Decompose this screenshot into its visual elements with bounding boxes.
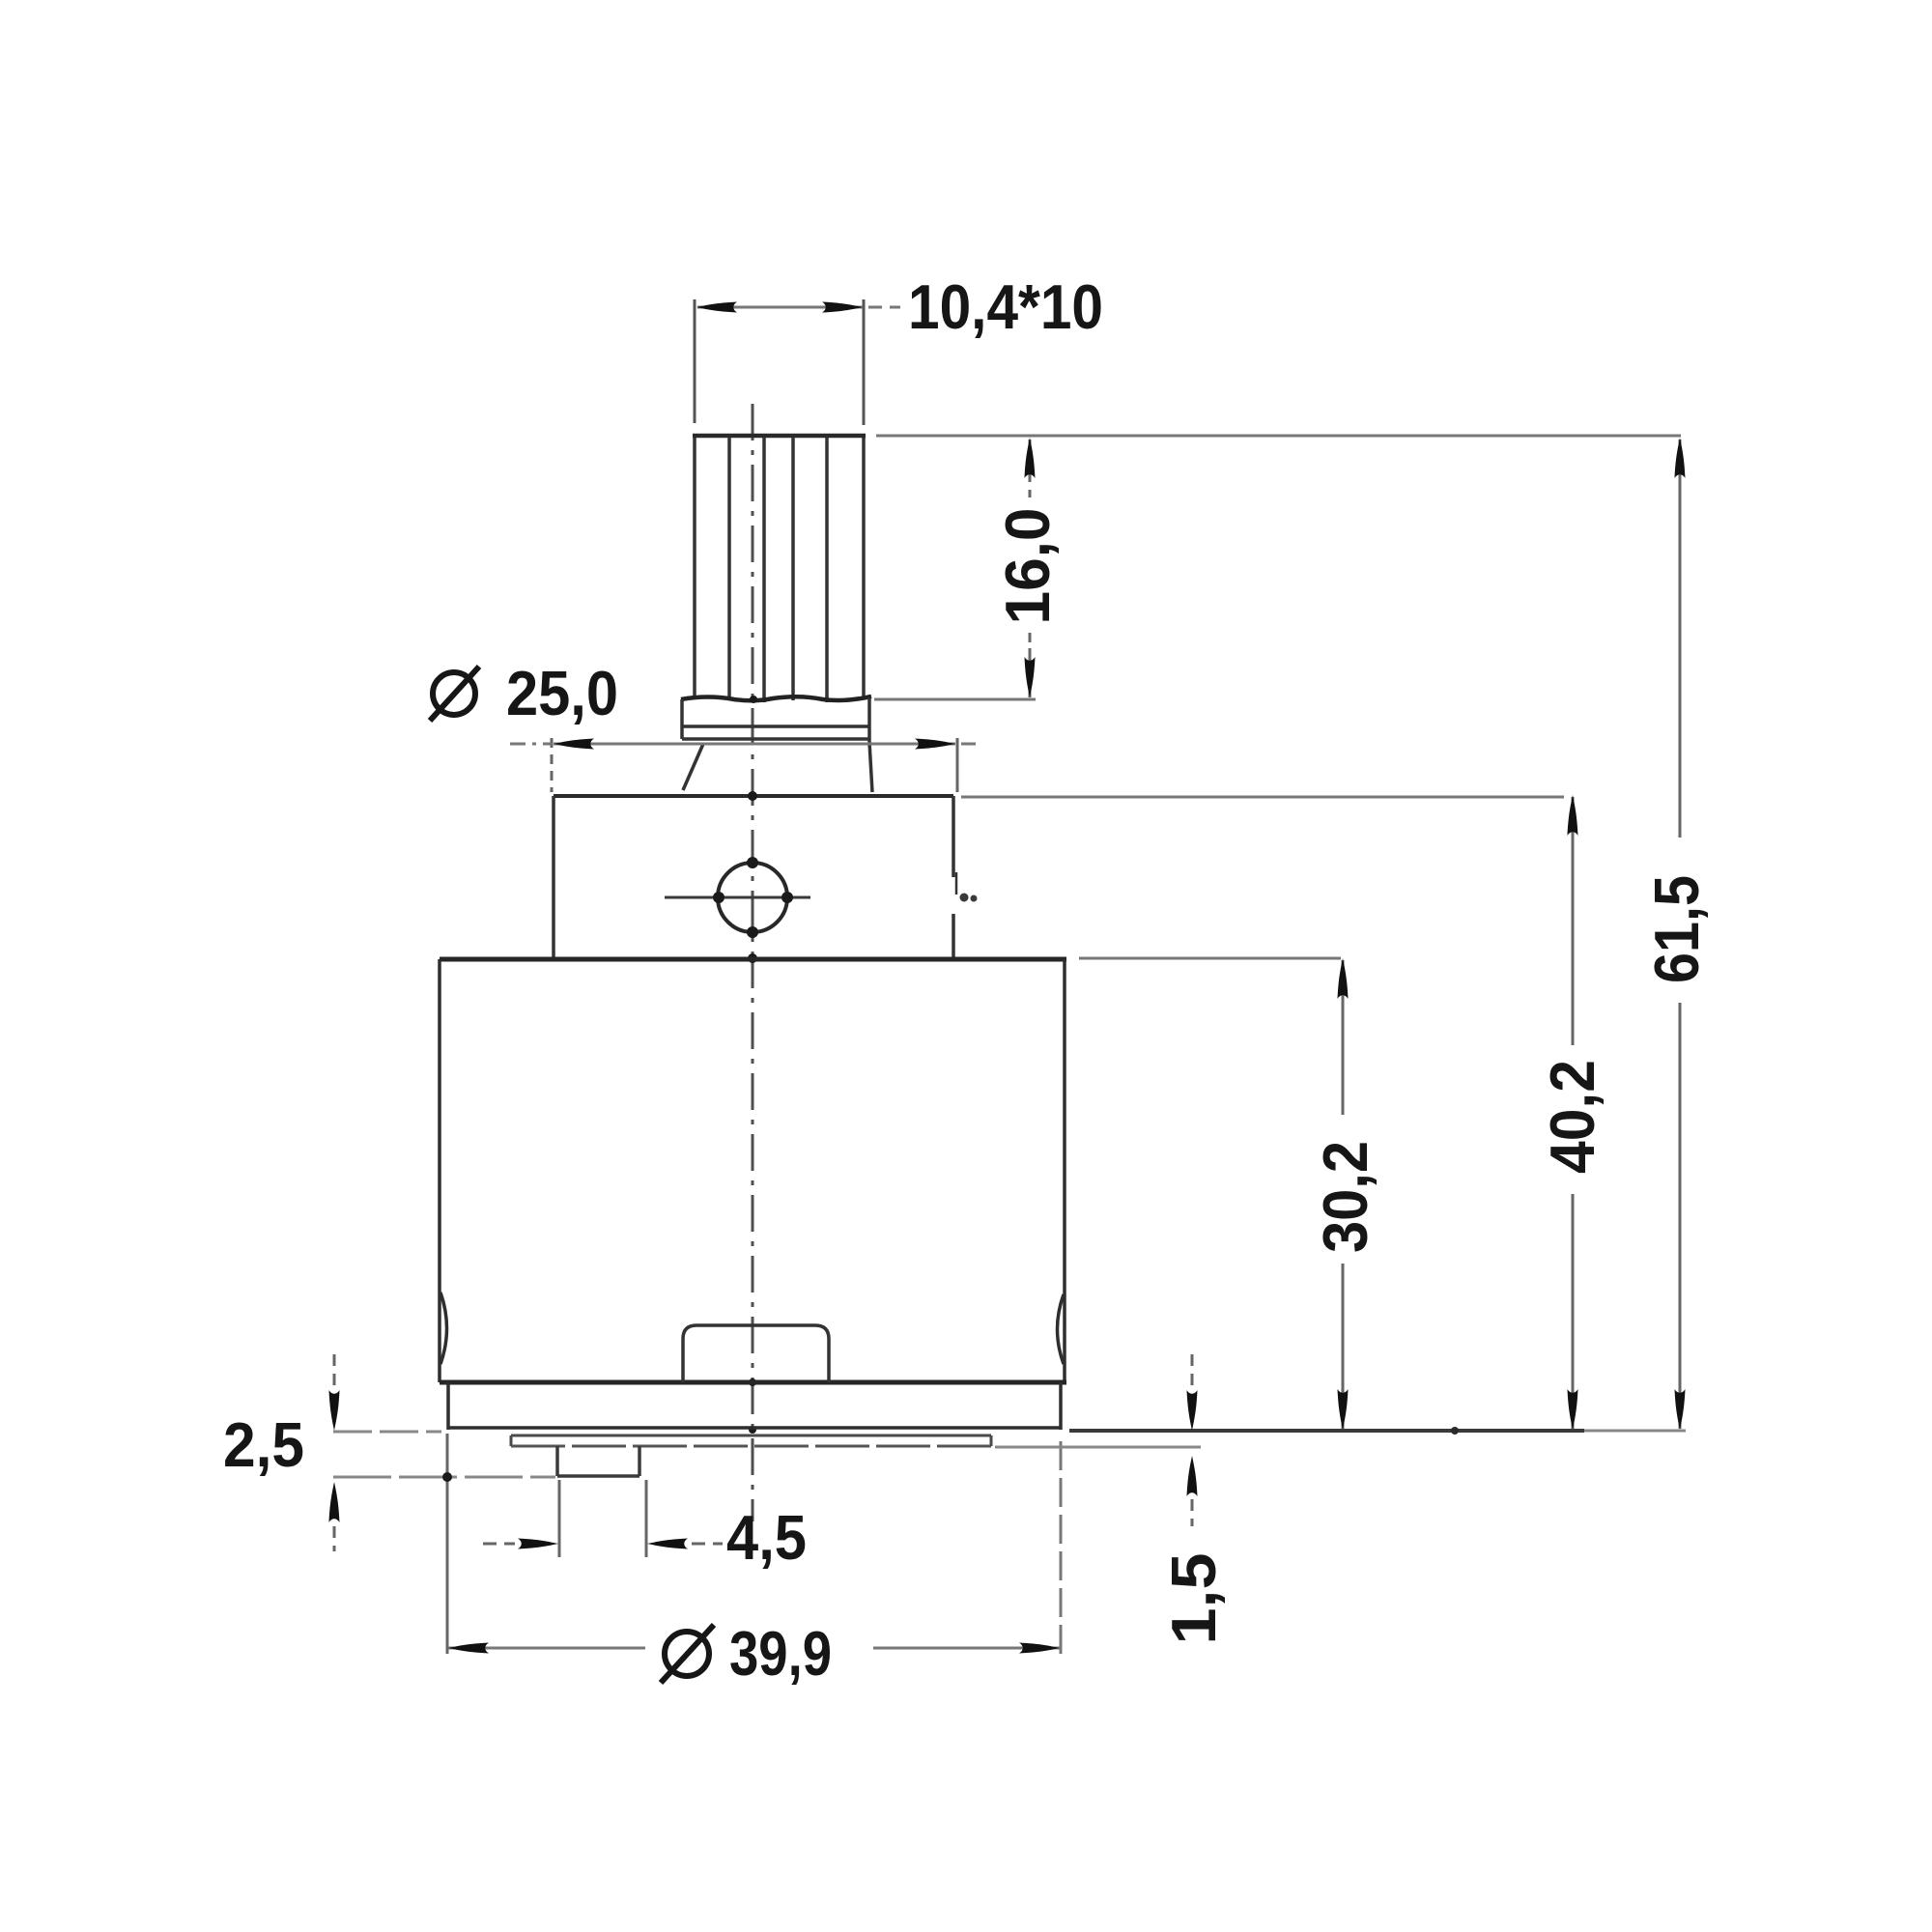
top reference line (shaft top) xyxy=(876,435,1681,438)
pivot hole circle xyxy=(718,863,787,932)
splined shaft stem xyxy=(693,436,866,702)
dim 2,5 line with arrows xyxy=(333,1354,336,1388)
diameter symbol for 39,9 xyxy=(661,1625,714,1683)
upper block xyxy=(554,796,956,957)
dim 16,0 top arrow xyxy=(1025,438,1036,478)
dim 10,4*10 left extension xyxy=(694,299,696,423)
dim 30,2 top arrow xyxy=(1338,958,1349,999)
dim 30,2 line xyxy=(1342,960,1345,1429)
svg-text:61,5: 61,5 xyxy=(1641,875,1712,983)
plate bottom tab xyxy=(557,1446,639,1476)
svg-text:39,9: 39,9 xyxy=(729,1618,832,1689)
dim diameter 25,0 line xyxy=(510,743,552,746)
shaft bottom wavy edge xyxy=(681,696,871,700)
collar flange xyxy=(682,697,869,742)
dim 4,5 right extension xyxy=(645,1480,648,1557)
dim 30,2 bottom arrow xyxy=(1338,1389,1349,1430)
centerline vertical axis xyxy=(752,404,754,1521)
dim 40,2 line xyxy=(1572,797,1575,1429)
dim 16,0 bottom extension line xyxy=(874,698,1036,701)
dim diameter 25,0 left arrow xyxy=(554,739,594,750)
dim 61,5 top arrow xyxy=(1675,438,1686,478)
dim 16,0 bottom arrow xyxy=(1025,657,1036,697)
svg-text:40,2: 40,2 xyxy=(1537,1060,1607,1174)
skirt ring xyxy=(448,1382,1061,1430)
junction dot extension crossing xyxy=(442,1472,452,1482)
dim diameter 25,0 right arrow xyxy=(915,739,955,750)
dim diameter 39,9 right extension xyxy=(1060,1441,1063,1654)
bottom reference line extending right xyxy=(1069,1429,1584,1433)
svg-text:2,5: 2,5 xyxy=(223,1409,304,1480)
dim 40,2 top arrow xyxy=(1568,795,1578,836)
dim 61,5 bottom arrow xyxy=(1675,1389,1686,1430)
block top reference line for 40,2 xyxy=(961,796,1564,799)
dim 4,5 left extension xyxy=(558,1480,561,1557)
body top reference line for 30,2 xyxy=(1079,957,1341,960)
dim diameter 25,0 right extension xyxy=(956,738,959,792)
svg-text:1,5: 1,5 xyxy=(1158,1553,1229,1645)
collar taper right xyxy=(869,742,872,792)
dim 2,5 upper extension line xyxy=(333,1431,441,1434)
svg-text:10,4*10: 10,4*10 xyxy=(908,271,1103,342)
dim 2,5 lower extension line xyxy=(333,1476,555,1479)
svg-text:25,0: 25,0 xyxy=(506,658,618,728)
collar taper left xyxy=(683,744,703,790)
body left edge bump xyxy=(440,1293,447,1364)
dim 40,2 bottom arrow xyxy=(1568,1389,1578,1430)
dim diameter 39,9 left arrow xyxy=(448,1643,489,1654)
dim 10,4*10 right extension xyxy=(863,299,866,425)
dim 16,0 line xyxy=(1029,440,1032,697)
svg-text:16,0: 16,0 xyxy=(992,508,1063,625)
dim 61,5 line xyxy=(1679,440,1682,1429)
dim 4,5 line with arrows xyxy=(483,1543,515,1546)
bottom tab on body xyxy=(683,1325,829,1382)
dim diameter 39,9 right arrow xyxy=(1019,1643,1060,1654)
svg-text:30,2: 30,2 xyxy=(1310,1141,1380,1253)
dim 10,4*10 left arrow xyxy=(696,302,737,313)
dim 1,5 line with arrows xyxy=(1191,1354,1194,1388)
dim 10,4*10 line xyxy=(697,306,863,309)
dim 10,4*10 right arrow xyxy=(822,302,863,313)
svg-text:4,5: 4,5 xyxy=(726,1502,807,1573)
hole crosshair horizontal xyxy=(665,896,810,899)
thin base plate xyxy=(511,1435,991,1446)
body right edge bump xyxy=(1058,1294,1065,1364)
notch mark on block right edge xyxy=(960,894,978,902)
dim diameter 39,9 left extension xyxy=(446,1434,449,1654)
dim diameter 25,0 left extension xyxy=(551,738,554,792)
dim diameter 39,9 line xyxy=(448,1647,645,1650)
junction dots on circle xyxy=(713,696,793,1434)
dim 1,5 extension line xyxy=(995,1446,1201,1449)
diameter symbol for 25,0 xyxy=(430,667,479,721)
main body cylinder xyxy=(440,959,1066,1382)
